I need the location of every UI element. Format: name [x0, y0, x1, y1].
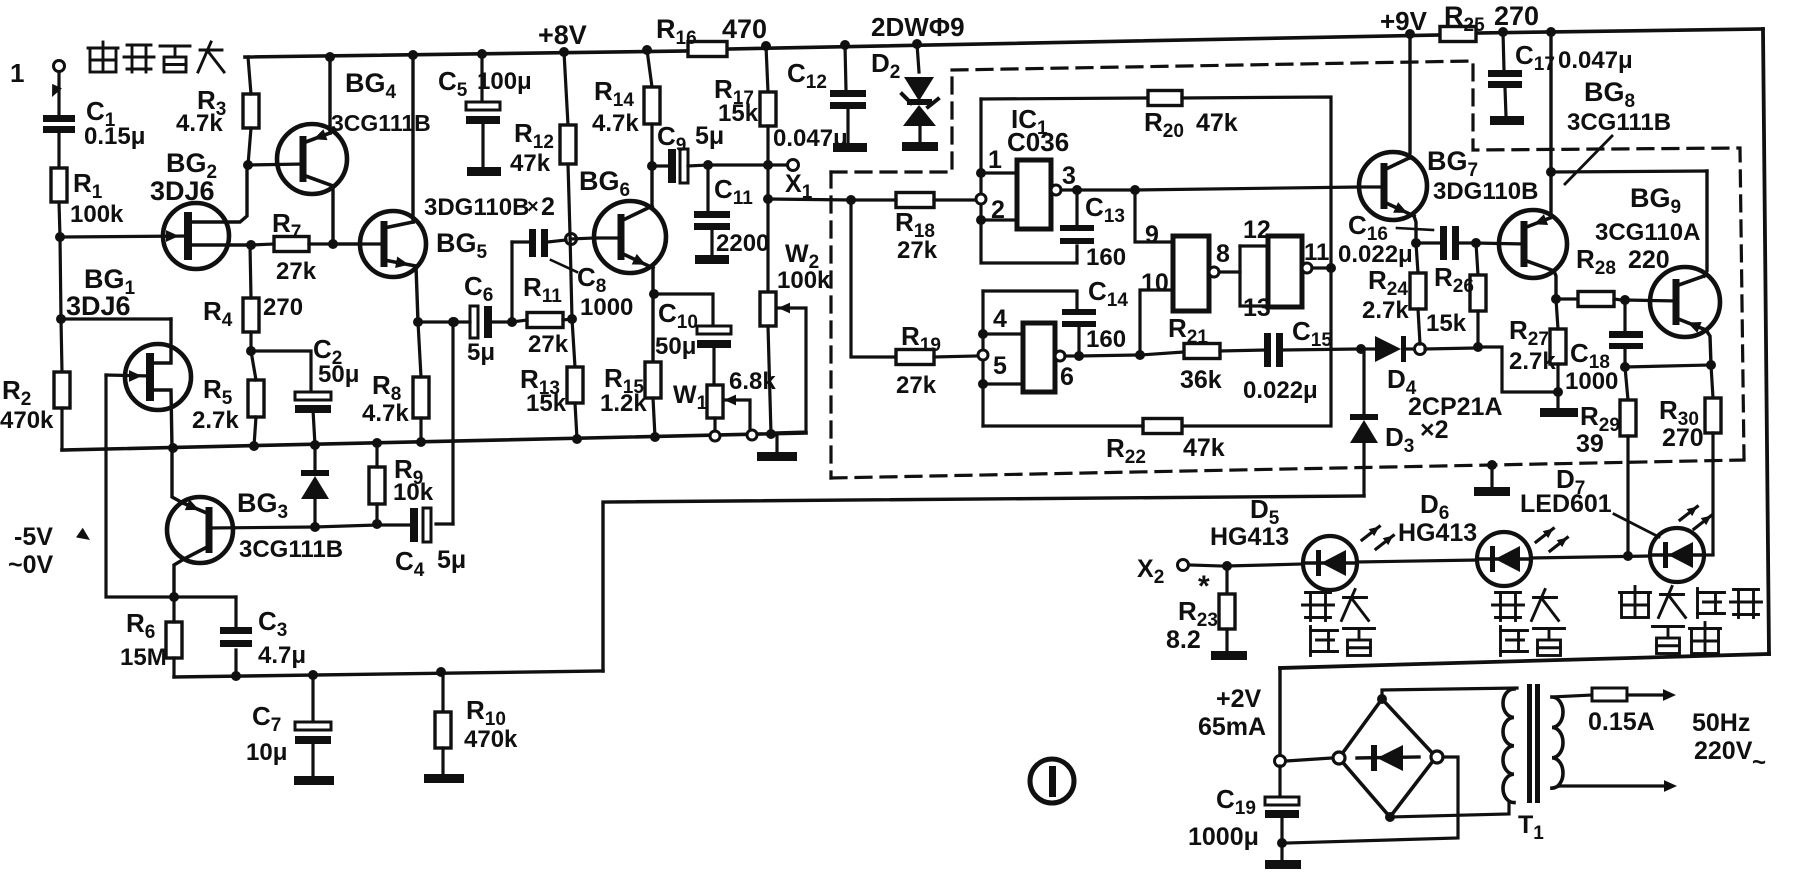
label +8V	[538, 20, 587, 50]
wire +2V supply drop	[1278, 668, 1281, 757]
ground on dashed line	[1474, 460, 1510, 496]
wire R2 to bottom rail	[60, 408, 63, 450]
svg-text:15k: 15k	[718, 100, 759, 127]
capacitor C7	[246, 675, 331, 776]
svg-text:5: 5	[993, 352, 1007, 380]
node R11 right junction	[567, 314, 577, 324]
node secondary output arrow	[1664, 780, 1677, 792]
node R1-R2-BG2 gate junction	[55, 232, 65, 242]
pin 4 label	[993, 305, 1007, 333]
capacitor C11	[694, 165, 769, 257]
svg-text:3DJ6: 3DJ6	[150, 176, 215, 206]
pin 10 label	[1141, 269, 1169, 297]
svg-text:39: 39	[1576, 430, 1604, 458]
label +2V 65mA	[1198, 685, 1266, 741]
node circled 1 symbol	[1030, 759, 1074, 803]
label 2DW phi9	[871, 12, 965, 42]
node C6-R11 junction	[507, 317, 517, 327]
node X1 terminal	[768, 160, 813, 204]
label 50Hz 220V	[1692, 709, 1766, 776]
resistor R5	[192, 351, 264, 446]
wire BG1 drain to R1/R2 column	[61, 317, 171, 320]
node BG3 base - D1 junction	[310, 522, 320, 532]
transistor BG8	[1476, 77, 1671, 299]
pin 3 output circle	[1051, 185, 1131, 195]
LED D7	[1520, 464, 1711, 582]
pin 9 label	[1145, 221, 1159, 249]
node pin6-pin10 junction	[1135, 350, 1145, 360]
node C7 top junction	[308, 670, 318, 680]
svg-text:47k: 47k	[510, 150, 551, 177]
svg-text:2.7k: 2.7k	[1509, 348, 1556, 375]
node pin 2 junction	[976, 215, 1017, 225]
node rail-BG1/BG3 junction	[168, 443, 178, 453]
svg-text:HG413: HG413	[1210, 523, 1289, 551]
pin 11 output circle	[1302, 263, 1327, 273]
wire C18 to BG9 emitter node	[1625, 365, 1711, 367]
svg-text:2DWΦ9: 2DWΦ9	[871, 12, 965, 42]
resistor R20	[981, 91, 1331, 269]
node BG8-BG9 collector tie junction	[1546, 167, 1556, 177]
label 红外发射 (infrared emit) D6	[1493, 590, 1565, 656]
diode D2 (2DW zener pair)	[871, 44, 938, 142]
svg-text:470: 470	[722, 14, 767, 44]
svg-text:3DG110B: 3DG110B	[424, 194, 529, 221]
svg-text:4.7k: 4.7k	[362, 400, 409, 427]
label 红外发射 (infrared emit) D5	[1303, 590, 1375, 656]
svg-text:5μ: 5μ	[437, 546, 466, 574]
svg-text:1: 1	[988, 146, 1002, 174]
node C16-BG8 base-R26 junction	[1471, 238, 1481, 248]
resistor R2	[0, 372, 70, 434]
svg-text:~0V: ~0V	[8, 551, 54, 579]
svg-text:4.7μ: 4.7μ	[258, 642, 306, 669]
pin 8 label	[1216, 240, 1230, 268]
resistor R4	[203, 245, 303, 351]
node rail-W2 junction	[766, 429, 776, 439]
node R9-C4 base junction	[372, 519, 382, 529]
resistor R18	[851, 193, 977, 265]
resistor R29	[1576, 367, 1636, 554]
node R7 left junction	[246, 240, 256, 250]
resistor R23	[1166, 566, 1235, 654]
node rail-R8 junction	[416, 437, 426, 447]
wire to bridge left	[1286, 758, 1332, 761]
svg-text:100k: 100k	[777, 267, 831, 294]
svg-text:4.7k: 4.7k	[176, 110, 223, 137]
ground under R23	[1211, 651, 1247, 660]
node W2-R18 junction	[763, 194, 773, 204]
svg-text:160: 160	[1086, 326, 1126, 353]
ground under R27	[1540, 392, 1578, 417]
svg-text:2: 2	[541, 193, 555, 221]
op-amp U1d inverter block	[1268, 236, 1302, 307]
svg-text:36k: 36k	[1180, 366, 1222, 394]
wire dashed box boundary	[831, 61, 1744, 478]
node C6 left junction	[449, 317, 459, 327]
svg-text:3CG111B: 3CG111B	[1567, 109, 1671, 136]
node rail-R9 junction	[372, 438, 382, 448]
svg-text:4.7k: 4.7k	[592, 110, 639, 137]
node rail-C5 junction	[477, 49, 487, 59]
node R4-R5-C2 junction	[246, 346, 256, 356]
capacitor C13	[1060, 190, 1126, 271]
svg-text:3DG110B: 3DG110B	[1433, 178, 1538, 205]
svg-text:1: 1	[10, 58, 24, 88]
ground bar under C17	[1490, 116, 1524, 125]
svg-text:0.022μ: 0.022μ	[1338, 241, 1413, 268]
svg-text:0.047μ: 0.047μ	[1558, 47, 1633, 74]
svg-text:47k: 47k	[1196, 109, 1238, 137]
resistor R7	[251, 208, 360, 285]
resistor R10	[435, 672, 518, 774]
svg-text:220V: 220V	[1694, 737, 1753, 765]
resistor R12	[510, 52, 576, 234]
capacitor C5	[438, 54, 532, 167]
ground bar under C11	[695, 255, 729, 264]
svg-text:6: 6	[1060, 363, 1074, 391]
IC U1 label IC1 C036	[1007, 104, 1069, 157]
svg-text:27k: 27k	[528, 331, 569, 358]
svg-text:3: 3	[1062, 162, 1076, 190]
node BG1 drain junction	[56, 314, 66, 324]
wire R12/C8 node down to R13	[570, 234, 575, 367]
wire to pin 9	[1135, 190, 1173, 242]
svg-text:0.15A: 0.15A	[1588, 708, 1655, 736]
svg-text:15M: 15M	[120, 644, 167, 671]
wire X1 node to R18/R19	[768, 199, 851, 200]
node R26 bottom junction	[1473, 342, 1483, 352]
node rail-BG5 collector junction	[408, 50, 418, 60]
node rail-D2 junction	[912, 39, 922, 49]
node C8 right - BG6 base junction	[566, 234, 577, 245]
wire BG3 base to C4	[315, 525, 411, 527]
node BG7 emitter - C16 - R24 junction	[1411, 238, 1421, 248]
svg-text:15k: 15k	[526, 390, 567, 417]
capacitor C10	[655, 298, 731, 385]
potentiometer W1	[673, 368, 776, 431]
svg-text:0.022μ: 0.022μ	[1243, 377, 1318, 404]
transistor BG4	[248, 57, 431, 244]
node pin6-C14 junction	[1074, 351, 1084, 361]
node R3-BG4 base-BG2 drain junction	[243, 160, 253, 170]
wire +9V rail right segment	[1476, 29, 1763, 33]
pin 8 output circle	[1209, 267, 1240, 277]
capacitor C15	[1243, 316, 1356, 404]
ground under W1/W2 rail	[757, 434, 797, 461]
svg-text:50μ: 50μ	[318, 361, 359, 388]
resistor R1	[51, 168, 124, 228]
svg-text:1.2k: 1.2k	[600, 390, 647, 417]
node rail-BG7 collector junction	[1405, 29, 1415, 39]
node R29-LED chain junction	[1623, 551, 1633, 561]
resistor R3	[176, 57, 259, 165]
capacitor C1	[43, 96, 145, 150]
wire C9 to R17/X1 node	[708, 163, 768, 166]
resistor R6	[120, 597, 182, 677]
node R27 bottom junction	[1553, 387, 1563, 397]
svg-text:4: 4	[993, 305, 1007, 333]
wire BG3 node to C3	[174, 595, 236, 598]
node rail-R14 junction	[642, 45, 652, 55]
resistor R16	[656, 14, 767, 57]
resistor R21	[1140, 313, 1264, 394]
svg-text:65mA: 65mA	[1198, 713, 1266, 741]
pin 6 label	[1060, 363, 1074, 391]
LED D5	[1210, 494, 1393, 590]
svg-text:9: 9	[1145, 221, 1159, 249]
label 音频输入 (audio input)	[88, 42, 224, 72]
wire pin3 to BG7 base	[1135, 187, 1359, 190]
wire to D5	[1227, 564, 1303, 566]
resistor R25	[1440, 1, 1539, 42]
node pin 4 junction	[978, 329, 1023, 339]
svg-text:C036: C036	[1007, 127, 1069, 157]
node rail-BG8 junction	[1546, 27, 1556, 37]
resistor R9	[369, 443, 434, 524]
potentiometer W2	[760, 199, 831, 434]
wire BG6 emitter to C10	[654, 294, 713, 326]
pin 11 label	[1304, 239, 1329, 266]
wire pin6 output	[1079, 355, 1136, 356]
diode D3	[1350, 349, 1414, 496]
diode D4	[1361, 336, 1503, 444]
svg-text:270: 270	[1494, 1, 1539, 31]
resistor R11	[512, 272, 572, 358]
capacitor C12	[773, 45, 866, 152]
wire -5V gate line down to BG3 node	[106, 375, 174, 597]
wire R1 to R2	[59, 202, 62, 372]
svg-text:2.7k: 2.7k	[192, 407, 239, 434]
node R7 right - BG4 collector junction	[328, 239, 338, 249]
capacitor C2	[251, 334, 359, 445]
node R27-R28-BG8 collector junction	[1551, 294, 1561, 304]
svg-text:×: ×	[527, 196, 539, 218]
node D3 branch junction	[1356, 344, 1366, 354]
svg-text:2.7k: 2.7k	[1362, 297, 1409, 324]
svg-text:220: 220	[1628, 246, 1670, 274]
node R14-C9-BG6 collector junction	[647, 161, 657, 206]
svg-text:5μ: 5μ	[467, 339, 495, 366]
pin 2 label	[991, 196, 1005, 224]
svg-text:11: 11	[1304, 239, 1329, 266]
wire outer border bottom edge	[1280, 654, 1769, 668]
svg-text:100μ: 100μ	[477, 68, 532, 95]
wire D5 to D6	[1357, 560, 1477, 562]
capacitor C16	[1338, 210, 1474, 268]
wire bridge top to primary	[1382, 688, 1517, 699]
transformer T1	[1503, 684, 1563, 844]
wire input to C1	[57, 72, 60, 115]
resistor R17	[714, 46, 776, 165]
transistor BG3	[167, 448, 343, 597]
wire +8V rail left segment	[245, 51, 688, 57]
op-amp U1b inverter block	[1023, 323, 1055, 392]
capacitor C14	[1062, 276, 1128, 356]
capacitor C18	[1565, 300, 1643, 395]
svg-text:2: 2	[991, 196, 1005, 224]
svg-text:47k: 47k	[1183, 434, 1225, 462]
wire D7 to R30 drop	[1704, 553, 1713, 556]
LED D6	[1398, 489, 1567, 586]
wire IC1 input column pins 1/2	[981, 99, 1077, 263]
wire secondary bottom	[1552, 786, 1665, 788]
node R10 junction	[436, 667, 446, 677]
node input terminal 1	[10, 58, 65, 97]
svg-text:470k: 470k	[0, 407, 54, 434]
svg-text:0.15μ: 0.15μ	[84, 123, 145, 150]
ground under C5	[467, 167, 501, 176]
label -5V ~0V	[8, 523, 90, 579]
node rail-BG6/R15 junction	[650, 432, 660, 442]
pin 1 label	[988, 146, 1002, 174]
ground under R10	[424, 774, 464, 783]
svg-text:+9V: +9V	[1380, 6, 1428, 36]
ground bar under D2	[902, 142, 938, 151]
wire BG5 emitter node	[418, 320, 453, 323]
svg-text:270: 270	[1662, 424, 1704, 452]
svg-text:160: 160	[1086, 244, 1126, 271]
node C19 bottom junction	[1277, 838, 1287, 848]
resistor R13	[520, 364, 583, 439]
pin 5 label	[993, 352, 1007, 380]
node rail-W1 terminal	[710, 431, 720, 441]
wire to R27 bottom	[1478, 347, 1554, 392]
node R17-X1 junction	[763, 160, 773, 170]
svg-text:+2V: +2V	[1216, 685, 1262, 713]
wire bottom -5V net	[174, 671, 603, 677]
resistor R19	[851, 200, 977, 399]
node rail-R17 junction	[761, 41, 771, 51]
svg-text:50Hz: 50Hz	[1692, 709, 1750, 737]
wire outer border right edge	[1763, 29, 1769, 654]
svg-text:10k: 10k	[393, 479, 434, 506]
svg-text:15k: 15k	[1426, 310, 1467, 337]
resistor R22	[983, 268, 1331, 468]
bridge rectifier B1	[1333, 694, 1443, 822]
node C11 junction	[703, 160, 713, 170]
node pin3-C13 junction	[1072, 185, 1082, 195]
svg-text:1000μ: 1000μ	[1188, 823, 1259, 851]
node C18 bottom junction	[1620, 362, 1630, 372]
resistor R30	[1659, 365, 1721, 554]
node BG5 emitter - R8 - C4 junction	[413, 317, 458, 327]
capacitor C6	[454, 271, 507, 366]
svg-text:HG413: HG413	[1398, 519, 1477, 547]
node rail-BG4 emitter junction	[325, 52, 335, 62]
label +9V	[1380, 6, 1428, 36]
svg-text:50μ: 50μ	[655, 333, 696, 360]
capacitor C19	[1188, 766, 1299, 851]
node pin 11 junction	[1326, 263, 1336, 273]
svg-text:1000: 1000	[580, 294, 633, 321]
svg-text:10μ: 10μ	[246, 739, 287, 766]
node rail-C17 junction	[1498, 27, 1508, 37]
node rail-R13 junction	[572, 434, 582, 444]
wire BG8/BG9 collector feed	[1549, 32, 1552, 213]
transistor BG5	[333, 55, 488, 322]
node D4 cathode circle	[1415, 344, 1426, 355]
pin 3 label	[1062, 162, 1076, 190]
wire bridge bottom to primary	[1390, 802, 1509, 817]
wire long routing wire to D3/X2 net	[603, 496, 1364, 671]
node C19 top circle junction	[1275, 756, 1286, 767]
capacitor C9	[652, 121, 724, 183]
ground bar under C12	[833, 143, 867, 152]
node rail-W1 wiper terminal	[747, 430, 757, 440]
wire stub	[453, 322, 456, 325]
wire down to W2 node	[766, 165, 769, 199]
node X2-R23 junction	[1222, 561, 1232, 571]
svg-text:*: *	[1198, 570, 1210, 603]
node R18-R19 branch junction	[846, 195, 856, 205]
svg-text:100k: 100k	[70, 201, 124, 228]
resistor R26	[1426, 243, 1486, 346]
node rail-C12 junction	[840, 40, 850, 50]
svg-text:~: ~	[1752, 749, 1766, 776]
diode D1	[301, 445, 329, 527]
wire IC1 lower input column pins 4/5	[983, 291, 1077, 426]
node pin 5 junction	[978, 379, 1023, 389]
svg-text:3CG111B: 3CG111B	[331, 110, 431, 136]
pin 12 label	[1243, 216, 1271, 244]
wire C1 to R1	[57, 131, 60, 168]
resistor R28	[1556, 244, 1670, 307]
svg-text:270: 270	[263, 294, 303, 321]
svg-text:3DJ6: 3DJ6	[66, 291, 131, 321]
svg-text:27k: 27k	[896, 372, 937, 399]
pin 13 label	[1243, 294, 1271, 322]
wire +8V/+9V rail middle segment	[727, 35, 1440, 49]
wire pin 8 to pins 12/13	[1240, 246, 1268, 306]
pin 6 output circle	[1055, 351, 1075, 361]
svg-text:-5V: -5V	[14, 523, 53, 551]
node pin 5 input circle	[978, 350, 988, 360]
capacitor C3	[220, 597, 306, 676]
op-amp U1a inverter block	[1017, 160, 1051, 229]
svg-text:27k: 27k	[897, 237, 938, 264]
wire collector tie to BG9	[1551, 171, 1707, 172]
op-amp U1c inverter block	[1173, 236, 1209, 311]
node BG6 emitter - C10 junction	[649, 289, 659, 299]
resistor R8	[362, 322, 429, 442]
resistor R14	[592, 50, 660, 166]
label 电源接通指示 (power-on indicator)	[1620, 587, 1762, 654]
node R28-C18-BG9 base junction	[1620, 295, 1630, 305]
transistor BG1	[66, 264, 191, 448]
svg-text:8: 8	[1216, 240, 1230, 268]
wire bridge right to C19 bottom	[1287, 757, 1458, 843]
svg-text:×2: ×2	[1420, 416, 1449, 444]
svg-text:10: 10	[1141, 269, 1169, 297]
capacitor C4	[395, 322, 466, 581]
transistor BG9	[1595, 171, 1720, 365]
transistor BG7	[1359, 34, 1538, 243]
svg-text:1000: 1000	[1565, 368, 1618, 395]
wire bottom ground rail	[62, 433, 806, 450]
node pin3 distribution junction	[1130, 185, 1140, 195]
ground under C7	[294, 776, 334, 785]
node pin 1 junction	[976, 168, 1017, 178]
node C3 bottom junction	[231, 671, 241, 681]
svg-text:3CG110A: 3CG110A	[1595, 219, 1700, 246]
node BG3 collector node	[169, 592, 179, 602]
svg-text:470k: 470k	[464, 726, 518, 753]
node rail-C2-D1 junction	[310, 440, 320, 450]
fuse F1 0.15A	[1552, 688, 1676, 736]
transistor BG6	[579, 166, 666, 273]
node pin 2 input circle	[976, 194, 986, 204]
